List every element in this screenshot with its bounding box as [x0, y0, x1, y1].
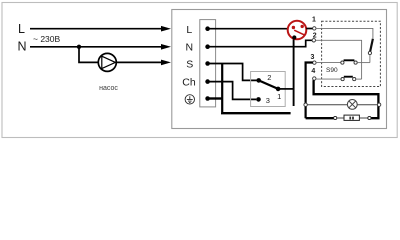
wire branch to pin2 — [294, 40, 313, 46]
terminal dot S — [205, 61, 210, 66]
wire pin4 down run — [314, 80, 379, 118]
ground symbol — [185, 95, 194, 104]
terminal dot Ch — [205, 79, 210, 84]
svg-text:насос: насос — [99, 85, 118, 92]
svg-text:L: L — [18, 22, 25, 36]
wire pump output — [116, 61, 162, 63]
svg-text:Ch: Ch — [182, 77, 196, 89]
thermostat dashed box — [322, 21, 381, 86]
wire S branch down — [221, 64, 223, 113]
wire lever down — [369, 55, 371, 63]
pin 1 — [313, 27, 316, 30]
wire N mains — [30, 46, 162, 48]
pin 3 — [313, 61, 316, 64]
svg-text:2: 2 — [267, 73, 271, 82]
svg-text:4: 4 — [311, 68, 315, 75]
wire pin3 feed — [306, 63, 313, 119]
svg-text:~ 230В: ~ 230В — [33, 34, 61, 44]
selector contact 2 — [256, 78, 261, 83]
wire resistor right — [359, 117, 367, 119]
control unit box — [172, 10, 387, 129]
svg-text:3: 3 — [310, 54, 314, 61]
wire ground link — [208, 97, 222, 99]
arrowhead N — [161, 44, 171, 50]
pin 2 — [312, 39, 315, 42]
selector lever — [259, 80, 278, 89]
wire selector common out — [278, 88, 294, 90]
wire N drop from switch — [293, 38, 295, 107]
wire pin3 internal — [316, 62, 341, 64]
selector common 1 — [276, 87, 281, 92]
svg-text:S: S — [186, 59, 193, 71]
terminal strip — [200, 20, 216, 107]
node lamp right — [377, 103, 380, 106]
thermostat lever — [370, 39, 373, 52]
terminal dot ground — [205, 96, 210, 101]
resistor R1 box — [344, 115, 359, 120]
selector switch box — [251, 72, 286, 107]
svg-text:1: 1 — [312, 17, 316, 24]
wire pin4 internal — [316, 78, 341, 80]
wire lamp left — [307, 104, 347, 106]
wire Ch to selector — [208, 82, 257, 100]
wire bottom loop left — [306, 117, 334, 119]
svg-text:N: N — [186, 42, 194, 54]
svg-text:L: L — [186, 24, 192, 36]
wire L to switch — [208, 28, 288, 30]
contact K2 — [341, 78, 344, 81]
outer frame — [2, 3, 397, 138]
terminal dot N — [205, 44, 210, 49]
wire pump feed — [79, 47, 99, 63]
wire L mains — [30, 28, 162, 30]
terminal dot L — [205, 26, 210, 31]
wire N to junction — [208, 46, 294, 48]
node lamp left — [304, 103, 307, 106]
selector contact 3 — [256, 97, 261, 102]
svg-text:1: 1 — [277, 92, 281, 101]
wire pin1 internal — [316, 28, 373, 38]
wire lamp right — [357, 104, 377, 106]
node resistor left — [334, 116, 337, 119]
wire S to selector — [208, 64, 257, 81]
thermostat pivot — [368, 51, 371, 54]
wire bottom run — [222, 112, 290, 113]
pin 4 — [313, 77, 316, 80]
node resistor right — [368, 116, 371, 119]
power switch SW1 (red) — [288, 21, 307, 40]
arrowhead pump — [161, 60, 171, 66]
wire switch to pin1 — [306, 28, 312, 30]
svg-text:N: N — [18, 40, 27, 54]
pump P1 — [98, 53, 116, 71]
svg-text:3: 3 — [266, 96, 270, 105]
wire pin2 internal — [316, 40, 362, 79]
contact K1 — [341, 61, 344, 64]
lamp HL1 — [347, 100, 357, 110]
junction pump tap — [77, 45, 81, 49]
svg-text:S90: S90 — [326, 67, 338, 74]
wire resistor left — [337, 117, 344, 119]
arrowhead L — [161, 26, 171, 32]
